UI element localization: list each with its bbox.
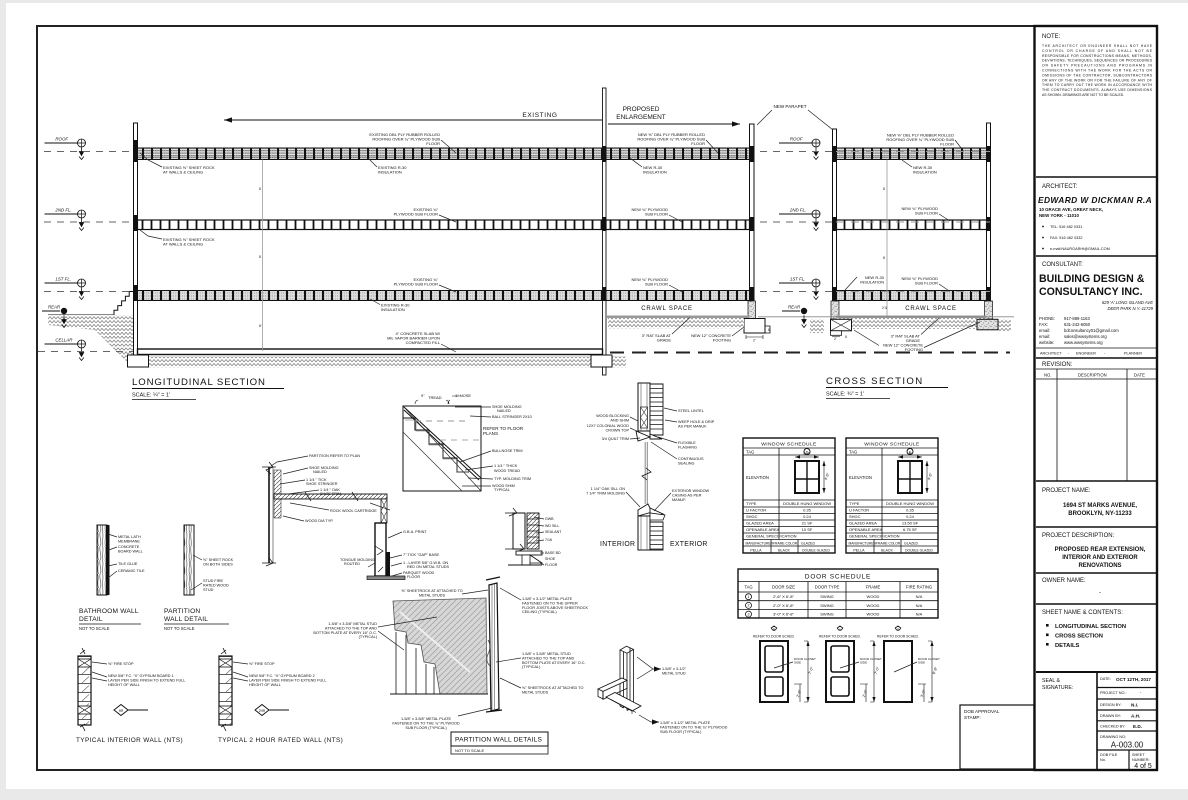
svg-text:DETAIL: DETAIL — [79, 616, 103, 623]
svg-text:FAX:: FAX: — [1039, 322, 1048, 327]
svg-text:PROJECT DESCRIPTION:: PROJECT DESCRIPTION: — [1042, 533, 1115, 539]
svg-text:ELEVATION: ELEVATION — [849, 475, 872, 480]
title longitudinal section — [132, 377, 284, 400]
cross section level marker ROOF — [779, 137, 820, 160]
svg-text:1-5/8" x 3-5/8" METAL STUD: 1-5/8" x 3-5/8" METAL STUD — [328, 622, 377, 626]
svg-text:FOOTING: FOOTING — [713, 338, 731, 343]
svg-text:website:: website: — [1039, 340, 1054, 345]
svg-text:WOOD: WOOD — [867, 603, 880, 608]
roof slab proposed — [606, 148, 750, 160]
svg-text:CONCRETE: CONCRETE — [118, 545, 140, 549]
svg-text:2′-6″ X 6′-8″: 2′-6″ X 6′-8″ — [773, 594, 794, 599]
svg-text:SEALING: SEALING — [678, 461, 695, 465]
svg-text:email:: email: — [1039, 328, 1050, 333]
svg-text:2′-6: 2′-6 — [882, 306, 887, 310]
cross section: right wall with parapet — [985, 123, 993, 320]
svg-text:REFER TO DOOR SCHED.: REFER TO DOOR SCHED. — [877, 635, 919, 639]
newel post — [367, 523, 405, 580]
svg-text:CROSS SECTION: CROSS SECTION — [826, 376, 924, 387]
svg-text:FLOOR JOISTS ABOVE SHEETROCK: FLOOR JOISTS ABOVE SHEETROCK — [522, 606, 589, 610]
1st floor slab proposed — [606, 291, 750, 301]
typical wall column at x=78 — [78, 648, 91, 731]
typical wall labels — [92, 662, 134, 666]
svg-text:TYPICAL INTERIOR WALL (NTS): TYPICAL INTERIOR WALL (NTS) — [76, 737, 183, 744]
svg-text:DRAWN BY:: DRAWN BY: — [1100, 714, 1121, 718]
cs crawl space text — [905, 306, 957, 312]
svg-text:WEEP HOLE & DRIP: WEEP HOLE & DRIP — [678, 420, 715, 424]
svg-text:12X7 COLONIAL WOOD: 12X7 COLONIAL WOOD — [587, 424, 630, 428]
svg-text:SHGC: SHGC — [746, 514, 758, 519]
typical wall title — [218, 737, 343, 744]
cross section outside earth patches — [810, 319, 1011, 333]
svg-text:MANUFACTURER: MANUFACTURER — [746, 542, 774, 546]
main drawing frame — [37, 26, 1035, 770]
svg-text:PLANS: PLANS — [483, 431, 498, 436]
svg-text:COMPACTED FILL: COMPACTED FILL — [406, 340, 441, 345]
svg-text:SHOE STRINGER: SHOE STRINGER — [306, 482, 338, 486]
svg-text:FRAME COLOR: FRAME COLOR — [773, 542, 798, 546]
svg-text:SHEET: SHEET — [1132, 753, 1145, 757]
svg-text:10 GRACE AVE, GREAT NECK,: 10 GRACE AVE, GREAT NECK, — [1039, 207, 1103, 212]
svg-text:bdconsultancy01@gmail.com: bdconsultancy01@gmail.com — [1064, 328, 1119, 333]
partition assembly right wall — [486, 577, 502, 712]
svg-text:CERAMIC TILE: CERAMIC TILE — [118, 569, 145, 573]
label new plywood 2nd — [632, 207, 682, 222]
svg-text:FASTENED ON TO THE UPPER: FASTENED ON TO THE UPPER — [522, 601, 578, 605]
svg-text:2ND FL.: 2ND FL. — [789, 208, 806, 213]
svg-text:TREAD: TREAD — [428, 395, 442, 400]
svg-text:1 1/4" OAK SILL ON: 1 1/4" OAK SILL ON — [591, 487, 626, 491]
svg-text:ARCHITECT:: ARCHITECT: — [1042, 184, 1078, 190]
svg-text:U FACTOR: U FACTOR — [849, 508, 869, 513]
svg-text:SUB FLOOR (TYPICAL): SUB FLOOR (TYPICAL) — [660, 730, 702, 734]
svg-text:-: - — [1099, 590, 1101, 596]
svg-text:FLOOR: FLOOR — [545, 563, 558, 567]
svg-text:WOOD: WOOD — [867, 594, 880, 599]
svg-text:AS SHOWN. DRAWINGS ARE NOT TO: AS SHOWN. DRAWINGS ARE NOT TO BE SCALED. — [1042, 93, 1124, 97]
svg-text:U FACTOR: U FACTOR — [746, 508, 766, 513]
svg-text:NUMBER:: NUMBER: — [1132, 758, 1150, 762]
svg-text:⅝" SHEETROCK AT ATTACHED TO: ⅝" SHEETROCK AT ATTACHED TO — [401, 589, 463, 593]
cross section earth hatch — [837, 318, 987, 329]
ceiling detail wall line — [262, 462, 276, 566]
svg-text:OPENABLE AREA: OPENABLE AREA — [746, 527, 780, 532]
cross section 1st floor slab — [837, 291, 987, 301]
svg-text:0.24: 0.24 — [803, 514, 812, 519]
label existing plywood subfloor 2nd — [394, 207, 456, 222]
svg-text:EXTERIOR WINDOW: EXTERIOR WINDOW — [672, 489, 710, 493]
svg-text:SEALANT: SEALANT — [545, 530, 562, 534]
svg-text:NO.: NO. — [1044, 373, 1051, 378]
svg-text:PHONE:: PHONE: — [1039, 316, 1055, 321]
earth hatch below cellar slab — [140, 357, 626, 368]
crawl space text proposed — [641, 306, 693, 312]
svg-text:DOOR SCHEDULE: DOOR SCHEDULE — [805, 573, 871, 580]
svg-text:STAMP:: STAMP: — [964, 715, 981, 720]
grade line and stair left — [48, 292, 134, 316]
svg-text:AS PER MANUF.: AS PER MANUF. — [678, 424, 707, 428]
jamb bottom wall — [638, 516, 650, 550]
svg-text:WOOD TREAD: WOOD TREAD — [494, 469, 520, 473]
2nd floor slab existing — [138, 220, 603, 230]
cross section interior column line — [882, 160, 887, 316]
svg-text:EDWARD W DICKMAN R.A: EDWARD W DICKMAN R.A — [1038, 195, 1152, 205]
svg-text:WALL DETAIL: WALL DETAIL — [164, 616, 208, 623]
svg-text:10 SF: 10 SF — [802, 527, 813, 532]
svg-text:DATE: DATE — [1134, 373, 1145, 378]
svg-text:CEILING (TYPICAL): CEILING (TYPICAL) — [522, 610, 557, 614]
svg-text:CHECKED BY:: CHECKED BY: — [1100, 725, 1126, 729]
svg-text:FOOTING: FOOTING — [905, 347, 923, 352]
svg-text:FIRE RATING: FIRE RATING — [906, 585, 932, 590]
svg-text:BOTTOM PLATE AT EVERY 16" O.C.: BOTTOM PLATE AT EVERY 16" O.C. — [313, 631, 377, 635]
svg-text:DOB APPROVAL: DOB APPROVAL — [964, 709, 1000, 714]
svg-text:CONTROL OR CHARGE OF A: CONTROL OR CHARGE OF AND SHALL NOT BE — [1042, 49, 1153, 53]
svg-text:6: 6 — [845, 335, 847, 339]
svg-text:6: 6 — [768, 328, 770, 332]
svg-text:2′: 2′ — [753, 339, 756, 343]
cs label roofing — [886, 133, 963, 151]
svg-text:7/16: 7/16 — [545, 538, 552, 542]
iso metal track base — [598, 678, 641, 714]
title block: architect section — [1036, 177, 1157, 251]
svg-text:FLEXIBLE: FLEXIBLE — [678, 441, 696, 445]
svg-text:DOOR TYPE: DOOR TYPE — [815, 585, 840, 590]
svg-text:SHOE TRIM: SHOE TRIM — [320, 492, 341, 496]
cross section 2nd floor slab — [837, 220, 987, 230]
svg-text:FLASHING: FLASHING — [678, 445, 697, 449]
cs label plywood 2nd — [902, 206, 950, 221]
svg-text:SUB FLOOR: SUB FLOOR — [915, 211, 938, 216]
svg-text:THEM TO CARRY OUT THE WORK: THEM TO CARRY OUT THE WORK IN ACCORDANCE… — [1042, 83, 1153, 87]
svg-text:ENLARGEMENT: ENLARGEMENT — [616, 114, 666, 121]
svg-text:1-5/8" x 3-5/8" METAL STUD: 1-5/8" x 3-5/8" METAL STUD — [522, 652, 571, 656]
partition assembly shaded polygon — [393, 598, 487, 694]
svg-text:INSULATION: INSULATION — [860, 280, 884, 285]
svg-text:CRAWL SPACE: CRAWL SPACE — [641, 306, 693, 312]
svg-text:GRADE: GRADE — [657, 338, 672, 343]
door elevation 1 — [819, 626, 882, 702]
svg-text:CROSS SECTION: CROSS SECTION — [1055, 634, 1103, 640]
window schedule table at x=743 — [743, 438, 835, 553]
svg-text:HEIGHT OF WALL: HEIGHT OF WALL — [108, 683, 140, 687]
svg-text:6.75 SF: 6.75 SF — [903, 527, 918, 532]
svg-text:INTERIOR AND EXTERIOR: INTERIOR AND EXTERIOR — [1062, 555, 1138, 561]
svg-text:LAYER PER SIDE FINISH TO EXTEN: LAYER PER SIDE FINISH TO EXTEND FULL — [249, 678, 326, 682]
svg-text:INSULATION: INSULATION — [381, 307, 405, 312]
svg-text:NEW 5/8″ F.C. “X” GYPSUM BOAR: NEW 5/8″ F.C. “X” GYPSUM BOARD 2 — [249, 674, 315, 678]
cross section left footing — [831, 319, 852, 341]
svg-text:E.D.: E.D. — [1133, 724, 1142, 729]
svg-text:SHOE: SHOE — [545, 557, 556, 561]
svg-text:OMISSIONS OF THE CONTRACTOR: OMISSIONS OF THE CONTRACTOR, SUBCONTRACT… — [1042, 73, 1153, 77]
svg-text:⅝" SHEETROCK AT ATTACHED TO: ⅝" SHEETROCK AT ATTACHED TO — [522, 686, 584, 690]
cellar slab existing — [138, 349, 603, 355]
svg-text:4 of 5: 4 of 5 — [1134, 763, 1152, 770]
partition wall labels — [193, 555, 234, 566]
svg-text:2′-0″ X 6′-8″: 2′-0″ X 6′-8″ — [773, 603, 794, 608]
title cross section — [826, 376, 948, 399]
svg-text:NEW PARAPET: NEW PARAPET — [773, 104, 806, 109]
svg-text:21 SF: 21 SF — [802, 521, 813, 526]
svg-text:2: 2 — [748, 604, 750, 608]
svg-text:DEER PARK N.Y.-11729: DEER PARK N.Y.-11729 — [1107, 306, 1153, 311]
svg-text:SUB FLOOR: SUB FLOOR — [645, 212, 668, 217]
svg-text:DOUBLE HUNG WINDOW: DOUBLE HUNG WINDOW — [783, 501, 831, 506]
svg-text:BUILDING DESIGN &: BUILDING DESIGN & — [1039, 273, 1145, 285]
stair dashed mid line — [415, 421, 480, 440]
svg-text:DESCRIPTION: DESCRIPTION — [1078, 373, 1107, 378]
ceiling detail hatched stringer strip — [274, 470, 281, 518]
svg-text:EXISTING: EXISTING — [522, 112, 557, 119]
svg-text:NEW YORK - 11010: NEW YORK - 11010 — [1039, 213, 1079, 218]
level marker CELLAR — [45, 338, 86, 361]
interior column line existing — [259, 160, 263, 352]
svg-text:AT WALLS & CEILING: AT WALLS & CEILING — [163, 242, 203, 247]
small sill labels — [534, 517, 562, 567]
svg-text:TYPE: TYPE — [849, 501, 860, 506]
svg-text:3′: 3′ — [909, 452, 912, 456]
cs label R30 roof — [902, 160, 937, 175]
bathroom wall labels — [108, 534, 141, 543]
svg-text:OPENABLE AREA: OPENABLE AREA — [849, 527, 883, 532]
title block: revision section — [1036, 358, 1157, 481]
2nd floor slab proposed — [606, 220, 750, 230]
iso stud labels — [637, 657, 687, 679]
svg-text:8: 8 — [259, 187, 261, 191]
typical wall column at x=219 — [219, 648, 232, 731]
typical wall diamond tag — [255, 705, 289, 716]
svg-text:FASTENED ON TO THE ¾" PLYWOOD: FASTENED ON TO THE ¾" PLYWOOD — [660, 725, 728, 729]
svg-text:FLOOR: FLOOR — [426, 141, 440, 146]
svg-text:METAL STUD: METAL STUD — [662, 671, 686, 675]
cs label rat slab — [891, 318, 939, 343]
svg-text:OWNER NAME:: OWNER NAME: — [1042, 578, 1086, 584]
svg-text:A-003.00: A-003.00 — [1111, 741, 1144, 750]
cross section roof slab — [837, 148, 987, 160]
svg-text:MANUFACTURER: MANUFACTURER — [849, 542, 877, 546]
label new R-30 insulation roof — [630, 158, 667, 175]
svg-text:INSULATION: INSULATION — [913, 170, 937, 175]
svg-text:1-5/8" x 3-1/2" METAL PLATE: 1-5/8" x 3-1/2" METAL PLATE — [522, 597, 573, 601]
small sill detail — [505, 508, 539, 552]
title block: sheet name & contents — [1036, 604, 1157, 649]
title block: project name — [1036, 481, 1157, 517]
earth hatch left of wall — [48, 315, 133, 368]
label sheet rock lower — [140, 230, 215, 247]
svg-text:LAYER PER SIDE FINISH TO EXTEN: LAYER PER SIDE FINISH TO EXTEND FULL — [108, 678, 185, 682]
svg-text:DOUBLE HUNG WINDOW: DOUBLE HUNG WINDOW — [886, 501, 934, 506]
svg-text:FLOOR: FLOOR — [691, 141, 705, 146]
svg-text:PELLA: PELLA — [853, 549, 865, 553]
svg-text:SIGNATURE:: SIGNATURE: — [1042, 685, 1073, 691]
svg-text:EXTERIOR: EXTERIOR — [670, 541, 708, 548]
svg-text:WOOD BLOCKING: WOOD BLOCKING — [596, 414, 629, 418]
svg-text:sales@wwsystems.org: sales@wwsystems.org — [1064, 334, 1107, 339]
svg-text:THE CONTRACT DOCUMENTS. ALWA: THE CONTRACT DOCUMENTS. ALWAYS USE DIMEN… — [1042, 88, 1153, 92]
cross section level marker REAR — [782, 305, 807, 328]
svg-text:SHGC: SHGC — [849, 514, 861, 519]
svg-text:ATTACHED TO THE TOP AND: ATTACHED TO THE TOP AND — [325, 626, 377, 630]
svg-text:SCALE: ¾" = 1′: SCALE: ¾" = 1′ — [826, 392, 864, 398]
interior exterior text — [600, 541, 708, 548]
earth hatch below crawl proposed — [608, 318, 744, 329]
svg-text:631-242-6050: 631-242-6050 — [1064, 322, 1091, 327]
svg-text:REAR: REAR — [788, 305, 801, 310]
svg-text:8': 8' — [259, 324, 262, 328]
svg-text:2′: 2′ — [834, 337, 837, 341]
door schedule table — [738, 569, 938, 618]
crawl space slab proposed (rat slab) — [606, 316, 750, 319]
svg-text:DOUBLE GLAZED: DOUBLE GLAZED — [905, 549, 933, 553]
svg-text:0.35: 0.35 — [803, 508, 812, 513]
svg-text:GENERAL SPECIFICATION: GENERAL SPECIFICATION — [849, 534, 900, 539]
svg-text:1 1/4 " THICK: 1 1/4 " THICK — [494, 464, 518, 468]
partition assembly labels — [401, 589, 488, 597]
svg-text:WINDOW SCHEDULE: WINDOW SCHEDULE — [864, 441, 920, 447]
svg-text:NAILED: NAILED — [313, 470, 327, 474]
jamb sill assembly bottom — [638, 504, 663, 517]
partition wall details title box — [451, 732, 548, 754]
ceiling band — [274, 492, 387, 501]
jamb head: brick ladder — [650, 384, 663, 435]
svg-text:NOTE:: NOTE: — [1042, 34, 1061, 40]
svg-text:OR ANY OF THE WORK OR FOR THE: OR ANY OF THE WORK OR FOR THE FAILURE OF… — [1042, 78, 1152, 82]
jamb bottom brick — [650, 513, 665, 550]
footing right of cellar — [591, 355, 612, 367]
svg-text:7 1/4" TRIM MOLDING: 7 1/4" TRIM MOLDING — [586, 491, 625, 495]
svg-text:RESPONSIBLE FOR CONSTRUCTION: RESPONSIBLE FOR CONSTRUCTIONS MEANS, MET… — [1042, 54, 1152, 58]
svg-text:CROWN TOP: CROWN TOP — [606, 428, 630, 432]
svg-text:STUD: STUD — [203, 588, 214, 592]
cross section grade line — [758, 316, 1014, 318]
svg-text:GENERAL SPECIFICATION: GENERAL SPECIFICATION — [746, 534, 797, 539]
svg-text:1694 ST MARKS AVENUE,: 1694 ST MARKS AVENUE, — [1063, 503, 1137, 509]
svg-text:1-5/8" x 3-5/8" METAL PLATE: 1-5/8" x 3-5/8" METAL PLATE — [401, 717, 452, 721]
svg-text:SUB FLOOR (TYPICAL): SUB FLOOR (TYPICAL) — [405, 726, 447, 730]
svg-text:GWB: GWB — [545, 517, 554, 521]
svg-text:www.wwsystems.org: www.wwsystems.org — [1064, 340, 1103, 345]
svg-text:OCT 12TH, 2017: OCT 12TH, 2017 — [1116, 677, 1151, 682]
svg-text:DOB FILE: DOB FILE — [1100, 753, 1118, 757]
svg-text:CONNECTIONS WITH THE WORK: CONNECTIONS WITH THE WORK FOR THE ACTS O… — [1042, 69, 1153, 73]
existing span arrow — [224, 112, 602, 123]
label existing R-30 insulation (1st) — [370, 299, 410, 312]
label roofing existing — [369, 132, 456, 153]
svg-text:SUB FLOOR: SUB FLOOR — [645, 282, 668, 287]
svg-text:PARTITION REFER TO PLAN: PARTITION REFER TO PLAN — [309, 454, 360, 458]
dashed level lines left margin — [38, 152, 133, 352]
title block: owner name — [1036, 573, 1157, 596]
svg-text:WOOD DIA TYP.: WOOD DIA TYP. — [305, 519, 333, 523]
svg-text:NAILED: NAILED — [497, 409, 511, 413]
svg-text:(TYPICAL): (TYPICAL) — [359, 635, 378, 639]
svg-text:ENGINEER: ENGINEER — [1076, 352, 1096, 356]
cs label plywood 1st — [902, 276, 950, 292]
svg-text:GLAZED AREA: GLAZED AREA — [746, 521, 774, 526]
svg-text:SEAL &: SEAL & — [1042, 678, 1061, 684]
svg-text:NOT TO SCALE: NOT TO SCALE — [79, 626, 110, 631]
svg-text:3′-0″ X 6′-8″: 3′-0″ X 6′-8″ — [773, 612, 794, 617]
svg-text:HEIGHT OF WALL: HEIGHT OF WALL — [249, 683, 281, 687]
svg-text:BASE BD: BASE BD — [545, 551, 561, 555]
label sheet rock upper — [140, 153, 215, 175]
svg-text:PROPOSED: PROPOSED — [623, 106, 660, 113]
partition assembly studs — [390, 632, 488, 694]
svg-text:email:: email: — [1039, 334, 1050, 339]
svg-text:DATE:: DATE: — [1100, 677, 1111, 681]
svg-text:SWING: SWING — [820, 612, 834, 617]
stair refer to floor plans — [483, 426, 524, 436]
svg-text:2HR: 2HR — [259, 709, 266, 713]
svg-text:1-5/8" x 3-1/2" METAL PLATE: 1-5/8" x 3-1/2" METAL PLATE — [660, 721, 711, 725]
svg-text:SHEET NAME & CONTENTS:: SHEET NAME & CONTENTS: — [1042, 610, 1123, 616]
longitudinal section: left wall — [134, 123, 138, 355]
svg-text:FAX: 516 482 0332: FAX: 516 482 0332 — [1050, 236, 1083, 240]
svg-text:SIDE: SIDE — [860, 660, 867, 664]
title block: seal & signature + data grid — [1036, 672, 1157, 770]
svg-text:AND SHIM: AND SHIM — [610, 418, 629, 422]
1st floor slab existing — [138, 291, 603, 301]
small sill base — [508, 551, 542, 565]
cross section level marker 1ST FL — [779, 277, 820, 300]
svg-text:PROJECT NAME:: PROJECT NAME: — [1042, 488, 1091, 494]
svg-text:WINDOW SCHEDULE: WINDOW SCHEDULE — [761, 441, 817, 447]
svg-text:1ST FL.: 1ST FL. — [55, 277, 71, 282]
svg-text:1" NOSE: 1" NOSE — [455, 393, 471, 398]
svg-text:13.50 SF: 13.50 SF — [902, 521, 919, 526]
svg-text:FLOOR: FLOOR — [940, 142, 954, 147]
svg-text:ELEVATION: ELEVATION — [746, 475, 769, 480]
svg-text:PARTITION: PARTITION — [164, 608, 200, 615]
svg-text:CONTINUOUS: CONTINUOUS — [678, 457, 704, 461]
svg-text:GLAZED: GLAZED — [801, 542, 815, 546]
label new roofing proposed — [637, 132, 718, 153]
svg-text:HR: HR — [119, 709, 124, 713]
svg-text:FRAME COLOR: FRAME COLOR — [876, 542, 901, 546]
svg-text:0.24: 0.24 — [906, 514, 915, 519]
svg-text:TAG: TAG — [849, 450, 857, 455]
typical wall title — [76, 737, 183, 744]
svg-text:ARCHITECT: ARCHITECT — [1040, 352, 1062, 356]
cross section crawl slab — [837, 316, 987, 319]
svg-text:SWING: SWING — [820, 594, 834, 599]
svg-text:DRAWING NO:: DRAWING NO: — [1100, 735, 1126, 739]
svg-text:3: 3 — [748, 612, 750, 616]
level marker REAR (grade) — [42, 305, 67, 328]
svg-text:BROOKLYN, NY-11233: BROOKLYN, NY-11233 — [1068, 511, 1132, 517]
svg-text:PELLA: PELLA — [750, 549, 762, 553]
svg-text:DEVIATIONS, TECHNIQUES, SEQU: DEVIATIONS, TECHNIQUES, SEQUENCES OR PRO… — [1042, 59, 1153, 63]
svg-text:FLOOR: FLOOR — [407, 575, 420, 579]
label existing R-30 insulation (roof) — [368, 158, 407, 175]
svg-text:METAL STUDS: METAL STUDS — [522, 690, 549, 694]
svg-text:PROJECT NO.:: PROJECT NO.: — [1100, 691, 1127, 695]
label new footing proposed — [691, 327, 744, 343]
svg-text:REFER TO DOOR SCHED.: REFER TO DOOR SCHED. — [819, 635, 861, 639]
svg-text:OR SAFETY PRECAUTIONS: OR SAFETY PRECAUTIONS AND PROGRAMS IN — [1042, 64, 1153, 68]
svg-text:0.35: 0.35 — [906, 508, 915, 513]
svg-text:INTERIOR: INTERIOR — [600, 541, 635, 548]
svg-text:No.: No. — [1100, 758, 1106, 762]
svg-text:5′-0″: 5′-0″ — [803, 452, 811, 456]
svg-text:SIDE: SIDE — [918, 660, 925, 664]
typical wall diamond tag — [114, 705, 148, 716]
svg-text:CONSULTANT:: CONSULTANT: — [1042, 262, 1083, 268]
svg-text:SIDE: SIDE — [794, 660, 801, 664]
svg-text:1: 1 — [839, 628, 841, 632]
svg-text:GLAZED: GLAZED — [904, 542, 918, 546]
